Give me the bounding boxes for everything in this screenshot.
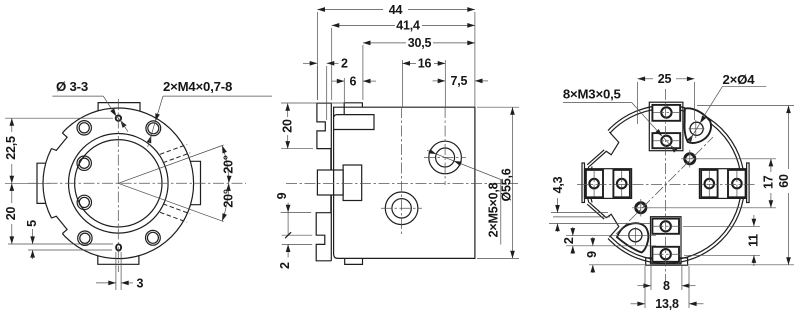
front view: dimension 3 (slot width) bbox=[115, 252, 117, 290]
side view: flange face line bbox=[330, 103, 332, 170]
front view: left tab bbox=[37, 163, 46, 203]
back view: E brush block cell 2 bbox=[728, 170, 746, 197]
svg-text:41,4: 41,4 bbox=[396, 19, 420, 33]
front view: hidden dashed lines at +20deg bbox=[163, 153, 190, 163]
back view: horizontal centerline bbox=[577, 184, 757, 186]
svg-text:44: 44 bbox=[389, 3, 403, 17]
back view: E brush block outer bbox=[699, 169, 746, 199]
front view: dimension 22,5 bbox=[5, 117, 113, 119]
side view: upper hole centerlines bbox=[444, 107, 446, 185]
svg-text:6: 6 bbox=[350, 74, 357, 88]
back view: E block hole 2 bbox=[732, 179, 742, 189]
svg-text:20°: 20° bbox=[222, 155, 236, 174]
front view: bore circle bbox=[75, 140, 162, 227]
back view: S brush block outer bbox=[651, 217, 682, 264]
back view: left side extension lines bbox=[551, 212, 608, 214]
back view: lower-left castellation notch bbox=[589, 203, 619, 238]
svg-text:8: 8 bbox=[663, 279, 670, 293]
svg-text:60: 60 bbox=[777, 174, 791, 188]
back view: SW ear (2xdia4 boss) bbox=[617, 223, 648, 252]
side view: top tab bbox=[344, 103, 362, 107]
back view: vertical centerline bbox=[665, 89, 667, 282]
side view: M5 hole upper bbox=[429, 141, 462, 174]
front view: leader to small hole bbox=[103, 96, 115, 115]
side view: dimension 2 (left bottom) bbox=[282, 243, 313, 245]
svg-text:16: 16 bbox=[418, 57, 432, 71]
front view: leader to M4 hole bbox=[156, 96, 163, 119]
front view: outer body circle bbox=[43, 108, 194, 259]
front view: flange inner circle bbox=[69, 134, 169, 234]
back view: S block hole 1 bbox=[661, 221, 671, 231]
side view: dimension 6 (top tab) bbox=[332, 80, 345, 82]
back view: NE ear hole dia4 bbox=[690, 122, 703, 135]
back view: dimension 60 bbox=[697, 105, 794, 107]
back view: S block hole 2 bbox=[661, 249, 671, 259]
side view: dimension 41,4 bbox=[331, 28, 333, 100]
side view: dimension 30,5 bbox=[362, 45, 364, 100]
side view: dimension 16 bbox=[401, 60, 403, 107]
back view: NE ear (2xdia4 boss) bbox=[685, 108, 711, 143]
back view: ear hole crosses bbox=[689, 128, 705, 130]
svg-text:2: 2 bbox=[562, 237, 576, 244]
side view: collar block top bbox=[334, 115, 374, 130]
back view: block hole centerline crosses bbox=[593, 171, 595, 197]
side view: M5 hole lower bbox=[385, 192, 418, 225]
front view: counterbore hole left-upper (inner bolt circle) bbox=[77, 156, 91, 170]
front view: counterbore hole lower-left bbox=[78, 231, 92, 245]
back view: bottom base tab bbox=[646, 258, 688, 265]
front view: angular dimension arc bbox=[222, 146, 229, 184]
back view: N brush block outer bbox=[649, 102, 683, 151]
side view: dimension 20 (left) bbox=[281, 102, 344, 104]
svg-text:2×M5×0,8: 2×M5×0,8 bbox=[487, 182, 501, 237]
svg-text:3: 3 bbox=[137, 277, 144, 291]
front view: small hole dia3 top bbox=[116, 116, 121, 121]
back view: N brush block cell 2 bbox=[652, 133, 680, 148]
side view: ring silhouette upper (tab + notch) bbox=[317, 103, 331, 170]
back view: NE screw bbox=[685, 154, 695, 164]
side view: dimension 44 bbox=[316, 12, 318, 100]
svg-text:9: 9 bbox=[275, 192, 289, 199]
side view: dia55,6 dimension bbox=[477, 106, 519, 108]
back view: SW ear hole dia4 bbox=[629, 229, 642, 242]
front view: dimension 5 bbox=[28, 249, 112, 251]
back view: dimension 8 bbox=[650, 266, 652, 290]
side view: bottom tab bbox=[345, 258, 363, 264]
front view: bottom tab bbox=[98, 256, 139, 265]
side view: left middle tab outer block bbox=[317, 170, 343, 195]
front view: lower-left castellation notch cutout bbox=[41, 216, 67, 241]
back view: N block hole 2 bbox=[661, 136, 671, 146]
side view: lower hole centerlines bbox=[401, 107, 403, 236]
back view: N block hole 1 bbox=[661, 107, 671, 117]
svg-text:2×Ø4: 2×Ø4 bbox=[723, 72, 756, 87]
svg-text:9: 9 bbox=[585, 251, 599, 258]
svg-text:25: 25 bbox=[658, 72, 672, 86]
back view: W brush block cell 2 bbox=[613, 170, 630, 197]
back view: left-side castellation cutout cover bbox=[570, 130, 620, 240]
side view: dimension 9 (left) bbox=[281, 211, 312, 213]
svg-text:Ø 3-3: Ø 3-3 bbox=[56, 79, 88, 94]
back view: W brush block cell 1 bbox=[586, 170, 603, 197]
front view: counterbore hole upper-left bbox=[77, 121, 91, 135]
side view: dimension 7,5 bbox=[433, 80, 446, 82]
svg-text:7,5: 7,5 bbox=[451, 74, 468, 88]
side view: horizontal centerline bbox=[286, 183, 518, 185]
side view: body rectangle bbox=[334, 107, 475, 258]
svg-text:17: 17 bbox=[762, 175, 776, 189]
svg-text:5: 5 bbox=[25, 220, 39, 227]
back view: E brush block cell 1 bbox=[701, 170, 718, 197]
back view: W plate bbox=[582, 163, 585, 203]
svg-text:2: 2 bbox=[341, 57, 348, 71]
back view: ring inner circle bbox=[590, 109, 742, 261]
back view: dimension 11 bbox=[683, 225, 760, 227]
front view: hidden dashed lines at -20deg bbox=[163, 204, 190, 214]
back view: E block hole 1 bbox=[705, 179, 715, 189]
back view: dimension 9 bbox=[592, 237, 594, 246]
back view: E plate bbox=[747, 163, 750, 203]
side view: ring silhouette lower (tab + notch) bbox=[316, 195, 331, 261]
back view: dimension 13,8 bbox=[644, 266, 646, 308]
back view: screw cross SW bbox=[632, 207, 650, 209]
svg-text:11: 11 bbox=[747, 234, 761, 247]
front view: small slot bottom bbox=[116, 244, 121, 250]
front view: right tab bbox=[190, 161, 200, 204]
svg-text:20: 20 bbox=[281, 119, 295, 133]
front view: upper-left castellation notch cutout bbox=[41, 125, 67, 150]
svg-text:2×M4×0,7-8: 2×M4×0,7-8 bbox=[163, 79, 232, 94]
svg-text:2: 2 bbox=[278, 262, 292, 269]
back view: S brush block cell 1 bbox=[652, 219, 679, 234]
svg-text:22,5: 22,5 bbox=[4, 136, 18, 160]
back view: W brush block outer bbox=[585, 169, 632, 199]
front view: dimension 20 bbox=[8, 243, 113, 245]
side view: dimension 2 (notch) bbox=[316, 66, 318, 100]
back view: W block hole 2 bbox=[617, 179, 627, 189]
back view: dimension 2 bbox=[572, 227, 574, 236]
back view: dimension 17 bbox=[696, 158, 776, 160]
svg-text:8×M3×0,5: 8×M3×0,5 bbox=[563, 87, 621, 102]
front view: 20deg extension line lower bbox=[118, 183, 223, 221]
front view: M4 hole lower-right bbox=[146, 230, 161, 245]
front view: horizontal centerline bbox=[28, 182, 246, 184]
back view: S brush block cell 2 bbox=[652, 247, 679, 262]
front view: vertical centerline bbox=[117, 99, 119, 272]
svg-text:30,5: 30,5 bbox=[408, 36, 432, 50]
svg-text:13,8: 13,8 bbox=[655, 297, 679, 311]
front view: M4 hole upper-right bbox=[146, 121, 161, 136]
front view: top tab bbox=[98, 103, 140, 112]
back view: 45deg diagonal centerline bbox=[616, 137, 713, 234]
svg-text:20: 20 bbox=[4, 207, 18, 221]
svg-text:20°: 20° bbox=[222, 189, 236, 208]
svg-text:4,3: 4,3 bbox=[551, 176, 565, 193]
back view: SW screw bbox=[636, 203, 646, 213]
side view: left middle tab inner block bbox=[343, 165, 362, 201]
back view: ring outer circle bbox=[587, 106, 745, 264]
front view: counterbore hole left-lower (inner bolt circle) bbox=[77, 195, 91, 209]
front view: 20deg extension line upper bbox=[118, 145, 223, 183]
back view: screw cross NE bbox=[681, 158, 699, 160]
back view: upper-left castellation notch bbox=[589, 132, 619, 167]
back view: W block hole 1 bbox=[589, 179, 599, 189]
svg-text:Ø55,6: Ø55,6 bbox=[500, 168, 514, 201]
back view: dimension 25 bbox=[637, 82, 639, 124]
back view: N brush block cell 1 bbox=[652, 105, 680, 121]
